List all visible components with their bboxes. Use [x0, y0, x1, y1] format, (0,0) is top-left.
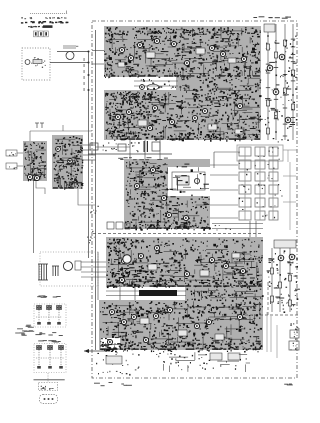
title block: drawing header text: [21, 11, 69, 28]
speed control dotted enclosure: [22, 48, 50, 80]
block D transistors Q301-Q308: [119, 245, 245, 282]
speed control pot VR1 and parts: [25, 57, 46, 67]
caption text below border left: [94, 382, 132, 386]
bottom right connector group: [267, 312, 299, 358]
wires ladder to block C: [210, 165, 238, 218]
long vertical wire inside border: [95, 30, 97, 350]
erase head symbol: [52, 266, 59, 276]
caption text below border right: [284, 384, 293, 386]
separator line above counter: [34, 379, 65, 381]
block C dark blobs: [127, 162, 205, 229]
main board outline (dash-dot border): [92, 21, 297, 378]
mechanism switch bank 2 leaf switches: [36, 346, 64, 369]
mechanism switch bank 1 label: [37, 295, 61, 297]
capstan motor circle on block D edge: [123, 255, 131, 263]
right column junction dots: [267, 35, 294, 133]
block D component cluster: [107, 238, 263, 288]
rec/pb head symbol with laminations: [38, 264, 48, 280]
block F component cluster: [24, 142, 46, 181]
motor M2 in head area: [63, 261, 81, 271]
block G transistors: [56, 147, 73, 164]
dense solder edge rows on blocks: [33, 75, 262, 350]
shaded pcb area: block G (bias board): [52, 135, 83, 189]
block F transistors: [27, 174, 39, 180]
shaded pcb area: bridge between A and B: [176, 74, 261, 92]
rec/pb switch ladder rows: [237, 145, 297, 230]
block E dark blobs: [100, 305, 262, 351]
shaded pcb area: block A (record amp upper): [104, 26, 261, 77]
right column transistors upper: [267, 54, 291, 123]
dash-dot line right lower section: [245, 314, 299, 316]
block A ic boxes: [118, 48, 236, 67]
block A component cluster (parts, traces, labels): [104, 27, 261, 78]
block D ic boxes: [148, 253, 240, 276]
block A transistors Q101-Q110: [119, 38, 246, 65]
mechanism switch bank 1 caption: [35, 332, 62, 336]
shaded pcb area: block B (playback amp upper): [104, 90, 261, 140]
block D top edge texture: [109, 238, 263, 249]
mechanism switch bank 2 label: [38, 340, 61, 342]
label text row above block C: [118, 157, 168, 160]
block E component cluster: [100, 301, 263, 352]
mechanism switch bank 1 leaf switches: [36, 306, 62, 325]
block B dark blobs: [110, 93, 262, 142]
main board name label (top right): [253, 16, 291, 18]
shaded pcb area: bridge between D and E: [185, 287, 263, 300]
wire from speed control to main board: [50, 62, 89, 64]
title block: approval stamp boxes: [34, 31, 49, 37]
right column parts upper: [265, 36, 298, 143]
white notch in block C with oscillator coil outline: [168, 167, 211, 196]
block G component cluster: [53, 136, 83, 190]
label line above blocks F and G: [30, 123, 92, 141]
wires above block D switch row: [212, 152, 263, 237]
block C component cluster: [125, 161, 211, 231]
right column lower transistors: [278, 254, 295, 261]
junction dots on vertical feeder: [88, 51, 90, 92]
block A dark blobs: [109, 30, 260, 76]
shaded pcb area: block F (motor control small board): [23, 141, 47, 181]
wire below block F down to head area: [34, 181, 99, 253]
wire bank2 to din: [47, 373, 49, 382]
right column lower connector boxes: [267, 240, 300, 313]
wire stubs into block A: [92, 51, 104, 65]
wires F G to main board: [83, 145, 96, 160]
mechanism switch bank 2 dotted enclosure: [34, 344, 66, 373]
input jack labels left of block F: [6, 150, 23, 169]
mechanism switch bank 1 dotted enclosure: [34, 304, 66, 327]
counter connector block: [39, 383, 58, 391]
wires in gap between D and E with black label: [106, 287, 186, 300]
right column lower wires: [270, 248, 291, 312]
block D dark blobs: [106, 240, 259, 288]
right column top connector box: [264, 24, 275, 32]
shaded pcb area: block E (playback amp lower): [99, 300, 263, 350]
right column resistors (vertical): [266, 40, 294, 134]
head wires to board: [81, 252, 106, 300]
head assembly dashed enclosure: [40, 252, 98, 286]
connector arrows on wire: [83, 58, 86, 91]
wires in gap between B and C: [88, 140, 172, 159]
wires in gap between A and B: [134, 79, 178, 90]
din socket: [40, 395, 58, 404]
component row between B and C: [90, 141, 160, 152]
block B ic boxes: [138, 120, 243, 134]
components below block E right part: [156, 352, 250, 372]
side label text block: [15, 325, 34, 336]
components below block E inside border: [84, 349, 140, 376]
long vertical feeder wire left of board: [88, 52, 90, 259]
block B transistors Q111-Q118: [115, 103, 242, 130]
right column vertical wires: [266, 24, 295, 140]
shaded pcb area: block C (dolby / eq section): [124, 159, 210, 229]
dash-dot separation line above block D: [93, 233, 263, 235]
shaded pcb area: block D (record amp lower): [106, 237, 263, 287]
bridge D-E component cluster: [187, 288, 264, 302]
block B component cluster: [105, 91, 262, 141]
motor M1 connector: [57, 45, 89, 60]
block E transistors Q401-Q409: [107, 307, 242, 344]
bridge A-B component cluster: [180, 75, 262, 92]
connector boxes above block D: [107, 221, 231, 231]
block C transistors Q201-Q205: [134, 167, 188, 220]
block E ic boxes: [140, 318, 224, 340]
